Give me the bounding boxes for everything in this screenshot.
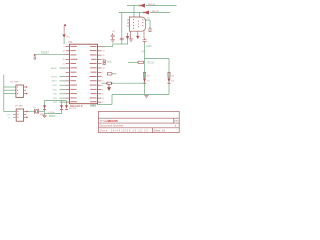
svg-text:1N4148: 1N4148: [152, 11, 160, 13]
svg-text:JP6 PWR: JP6 PWR: [10, 81, 19, 83]
svg-text:REV:: REV:: [174, 121, 179, 123]
svg-text:RESET: RESET: [41, 51, 50, 54]
svg-text:MISO: MISO: [52, 81, 58, 83]
svg-text:SCK: SCK: [53, 85, 58, 87]
svg-text:8MHz: 8MHz: [40, 114, 45, 116]
svg-text:9: 9: [64, 46, 65, 48]
svg-text:20: 20: [62, 59, 64, 61]
svg-text:Document Number:: Document Number:: [100, 124, 124, 128]
svg-text:R5 1K: R5 1K: [148, 61, 155, 64]
svg-text:Date: 26/04/2009 23:10:23: Date: 26/04/2009 23:10:23: [100, 129, 149, 133]
svg-text:ADC: ADC: [107, 60, 112, 63]
svg-text:RXD: RXD: [53, 89, 58, 91]
svg-text:VCC: VCC: [66, 36, 71, 38]
svg-text:C1 22p: C1 22p: [48, 112, 55, 114]
svg-text:IC1: IC1: [69, 40, 74, 44]
svg-text:+5V: +5V: [141, 51, 146, 54]
svg-text:R1 10K: R1 10K: [69, 108, 77, 110]
svg-text:JP7 SER: JP7 SER: [15, 105, 24, 107]
svg-text:1: 1: [64, 54, 65, 56]
svg-text:10: 10: [62, 51, 64, 53]
svg-text:MCU05: MCU05: [108, 119, 119, 123]
svg-text:1N4148: 1N4148: [148, 4, 156, 6]
svg-text:8MHZ: 8MHZ: [49, 115, 56, 118]
svg-text:MOSI: MOSI: [52, 76, 58, 78]
svg-text:21: 21: [62, 64, 64, 66]
svg-text:Sheet: 1/1: Sheet: 1/1: [154, 129, 166, 133]
svg-text:TXD: TXD: [53, 94, 58, 96]
svg-text:AREF: AREF: [51, 67, 57, 70]
svg-text:GND: GND: [146, 45, 152, 48]
